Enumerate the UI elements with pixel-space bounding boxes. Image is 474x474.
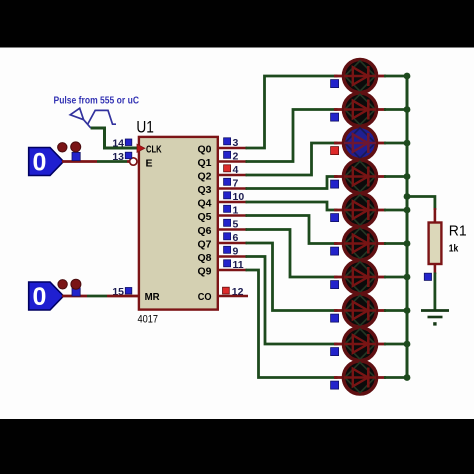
junction on bus at LED D7	[404, 274, 411, 281]
R1 top pin	[434, 208, 437, 223]
svg-text:Q2: Q2	[197, 171, 211, 183]
junction on bus at LED D5	[404, 207, 411, 214]
LED D7 cathode stub	[375, 276, 386, 279]
wire: Q2 to LED D3	[246, 143, 338, 175]
junction on bus at LED D8	[404, 307, 411, 314]
wire: Q6 to LED D7	[246, 230, 338, 278]
clock input arrow on pin 14	[137, 144, 145, 152]
LED D4 body	[344, 160, 377, 193]
Q2 pin stub	[218, 174, 247, 177]
LED D4 anode stub	[334, 175, 345, 178]
junction on bus at LED D10	[404, 374, 411, 381]
LED D10 body	[344, 361, 377, 394]
top letterbox bar	[0, 0, 474, 48]
pin 10 logic indicator	[224, 192, 231, 199]
pin 11 logic indicator	[224, 260, 231, 267]
svg-text:Q1: Q1	[197, 157, 211, 169]
junction on bus at R1 branch	[404, 193, 411, 200]
LED D10 anode stub	[334, 376, 345, 379]
svg-text:Q8: Q8	[197, 252, 211, 264]
pin 13 logic indicator	[125, 152, 132, 159]
LED D7 anode stub	[334, 276, 345, 279]
pin 3 logic indicator	[224, 138, 231, 145]
wire: LED D8 cathode to bus	[384, 309, 408, 312]
wire: bus to R1	[407, 197, 435, 211]
Q1 pin stub	[218, 160, 247, 163]
wire: LED D4 cathode to bus	[384, 175, 408, 178]
LED D2 cathode stub	[375, 108, 386, 111]
junction on bus at LED D2	[404, 106, 411, 113]
wire: LED D10 cathode to bus	[384, 376, 408, 379]
pin 2 logic indicator	[224, 151, 231, 158]
LED D9 cathode stub	[375, 343, 386, 346]
resistor R1 body	[429, 223, 442, 265]
decoration dot A2	[71, 142, 81, 152]
LED D1 body	[344, 60, 377, 93]
svg-text:Q7: Q7	[197, 239, 211, 251]
LED D2 body	[344, 93, 377, 126]
LED D2 anode stub	[334, 108, 345, 111]
wire: Q0 to LED D1	[246, 76, 338, 148]
wire: Q8 to LED D9	[246, 257, 338, 345]
junction on bus at LED D1	[404, 73, 411, 80]
R1 bottom net logic indicator	[424, 273, 431, 280]
pin 5 logic indicator	[224, 219, 231, 226]
svg-text:Q5: Q5	[197, 211, 211, 223]
wire: pulse source to CLK pin 14	[91, 128, 140, 148]
junction on bus at LED D4	[404, 173, 411, 180]
annotation pulse waveform sketch	[88, 110, 116, 124]
ground symbol	[421, 311, 449, 326]
LED D8 body	[344, 294, 377, 327]
LED D1 net logic indicator	[331, 80, 339, 88]
Q9 pin stub	[218, 269, 247, 272]
LED D1 cathode stub	[375, 75, 386, 78]
bottom letterbox bar	[0, 419, 474, 474]
LED D8 cathode stub	[375, 309, 386, 312]
LED D8 net logic indicator	[331, 314, 339, 322]
wire: Q1 to LED D2	[246, 110, 338, 162]
svg-text:Q0: Q0	[197, 144, 211, 156]
Q0 pin stub	[218, 147, 247, 150]
Q8 pin stub	[218, 255, 247, 258]
LED D3 anode stub	[334, 142, 345, 145]
inversion bubble on pin 13 (E)	[130, 158, 137, 165]
pin 6 logic indicator	[224, 233, 231, 240]
svg-text:Q4: Q4	[197, 198, 211, 210]
svg-text:CO: CO	[198, 291, 212, 303]
decoration dot B1	[58, 280, 67, 289]
wire: LED D9 cathode to bus	[384, 343, 408, 346]
svg-text:14: 14	[112, 137, 124, 149]
pin 9 logic indicator	[224, 246, 231, 253]
svg-text:0: 0	[33, 149, 47, 177]
pin 1 logic indicator	[224, 205, 231, 212]
R1 bottom pin	[434, 264, 437, 274]
svg-text:Q9: Q9	[197, 266, 211, 278]
Q7 pin stub	[218, 242, 247, 245]
svg-text:MR: MR	[145, 291, 160, 303]
CO pin 12 stub (unconnected)	[218, 295, 248, 298]
wire logic indicator (MR net)	[72, 288, 80, 296]
LED D1 anode stub	[334, 75, 345, 78]
Q5 pin stub	[218, 214, 247, 217]
LED D3 net logic indicator	[331, 147, 339, 155]
LED D8 anode stub	[334, 309, 345, 312]
wire: Q3 to LED D4	[246, 177, 338, 189]
LED D5 net logic indicator	[331, 214, 339, 222]
logicstate input box "0" (drives MR)	[29, 282, 64, 310]
Q4 pin stub	[218, 201, 247, 204]
LED D10 net logic indicator	[331, 381, 339, 389]
wire: LED D7 cathode to bus	[384, 276, 408, 279]
cathode bus wire	[406, 76, 409, 378]
wire: LED D2 cathode to bus	[384, 108, 408, 111]
wire: R1 to ground	[433, 273, 436, 311]
svg-text:1k: 1k	[449, 243, 459, 254]
svg-text:Pulse from 555 or uC: Pulse from 555 or uC	[54, 95, 140, 106]
pin 7 logic indicator	[224, 178, 231, 185]
wire logic indicator (E net)	[72, 152, 80, 160]
LED D3 body	[344, 127, 377, 160]
LED D10 cathode stub	[375, 376, 386, 379]
LED D7 net logic indicator	[331, 281, 339, 289]
Q6 pin stub	[218, 228, 247, 231]
wire: Q4 to LED D5	[246, 202, 338, 210]
svg-text:0: 0	[33, 283, 47, 311]
junction on bus at LED D6	[404, 240, 411, 247]
svg-text:CLK: CLK	[146, 143, 162, 155]
LED D6 anode stub	[334, 242, 345, 245]
svg-text:U1: U1	[136, 118, 154, 136]
logicstate input box "0" (drives E)	[29, 148, 64, 176]
Q3 pin stub	[218, 187, 247, 190]
LED D5 body	[344, 194, 377, 227]
wire: Q9 to LED D10	[246, 270, 338, 378]
wire: LED D6 cathode to bus	[384, 242, 408, 245]
LED D5 cathode stub	[375, 209, 386, 212]
LED D6 net logic indicator	[331, 247, 339, 255]
junction on bus at LED D3	[404, 140, 411, 147]
pin 4 logic indicator	[224, 165, 231, 172]
pin 14 logic indicator	[125, 139, 132, 146]
annotation arrow (callout triangle)	[70, 108, 91, 128]
LED D6 body	[344, 227, 377, 260]
wire: logicstate to E pin 13	[62, 160, 97, 163]
junction on bus at LED D9	[404, 341, 411, 348]
svg-text:4017: 4017	[138, 313, 159, 325]
LED D3 cathode stub	[375, 142, 386, 145]
LED D5 anode stub	[334, 209, 345, 212]
wire: LED D1 cathode to bus	[384, 75, 408, 78]
svg-text:Q3: Q3	[197, 184, 211, 196]
svg-text:Q6: Q6	[197, 225, 211, 237]
svg-text:R1: R1	[449, 223, 467, 240]
wire: logicstate to MR pin 15	[62, 295, 87, 298]
decoration dot A1	[58, 143, 67, 152]
wire: LED D5 cathode to bus	[384, 209, 408, 212]
pin 12 logic indicator	[223, 287, 230, 294]
LED D9 net logic indicator	[331, 348, 339, 356]
LED D4 cathode stub	[375, 175, 386, 178]
wire: Q5 to LED D6	[246, 216, 338, 244]
LED D2 net logic indicator	[331, 113, 339, 121]
svg-text:E: E	[146, 157, 153, 169]
LED D9 anode stub	[334, 343, 345, 346]
pin 15 logic indicator	[125, 288, 132, 295]
decoration dot B2	[71, 279, 81, 289]
LED D9 body	[344, 328, 377, 361]
wire: LED D3 cathode to bus	[384, 142, 408, 145]
LED D6 cathode stub	[375, 242, 386, 245]
wire: Q7 to LED D8	[246, 243, 338, 311]
LED D4 net logic indicator	[331, 180, 339, 188]
IC U1 4017 body	[139, 137, 218, 310]
LED D7 body	[344, 261, 377, 294]
